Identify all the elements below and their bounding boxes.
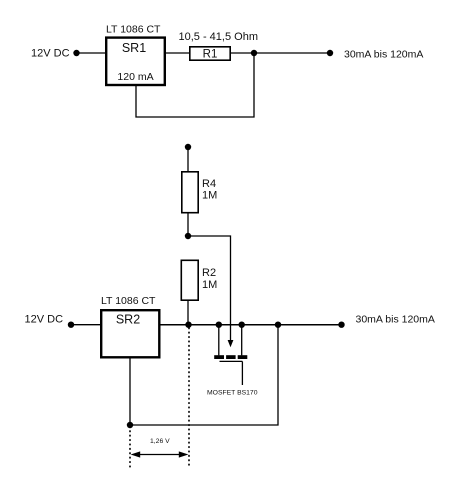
wire: SR2 output rail to terminal [160, 324, 342, 326]
dotted extension line left [129, 431, 131, 468]
drain lead [218, 325, 220, 356]
wire: input to SR2 [74, 324, 101, 326]
wire: input to SR1 (top) [79, 52, 106, 54]
node: R4/R2 divider junction [185, 233, 191, 239]
node: 12V DC input terminal (top circuit) [31, 48, 80, 60]
wire: divider node to MOSFET gate [188, 236, 231, 341]
gate lead down [241, 361, 243, 385]
node: ADJ feedback corner [127, 422, 133, 428]
node: feedback junction on rail [275, 322, 281, 328]
resistor R4 1M [182, 172, 217, 213]
source lead [241, 325, 243, 356]
svg-text:1M: 1M [202, 279, 217, 291]
wire: R2 to output rail [187, 300, 189, 325]
svg-text:R2: R2 [202, 267, 216, 279]
regulator SR2 (LT 1086 CT) [101, 295, 159, 357]
gate arrowhead [228, 340, 234, 347]
wire: SR1 ADJ feedback loop (top) [136, 53, 254, 117]
dotted extension line right [188, 328, 190, 468]
transistor MOSFET BS170 [207, 325, 258, 397]
wire: node to output terminal (top) [254, 52, 330, 54]
channel bar body [226, 355, 236, 359]
node: MOSFET drain junction [216, 322, 222, 328]
svg-text:SR1: SR1 [122, 41, 146, 55]
svg-text:30mA bis 120mA: 30mA bis 120mA [344, 48, 423, 60]
dimension line [136, 454, 183, 456]
arrowhead right [179, 451, 189, 457]
svg-text:1M: 1M [202, 190, 217, 202]
resistor R1 (10,5 - 41,5 Ohm) [179, 31, 259, 61]
node: supply terminal above R4 [185, 144, 191, 150]
wire: SR2 ADJ feedback loop [130, 325, 278, 425]
svg-text:12V DC: 12V DC [31, 48, 70, 60]
node: output terminal 30mA bis 120mA (bottom) [338, 314, 435, 328]
svg-text:MOSFET BS170: MOSFET BS170 [207, 390, 258, 397]
wire: R1 to output node (top) [230, 52, 254, 54]
annotation: 1,26 V dimension [130, 328, 189, 468]
arrowhead left [131, 451, 141, 457]
svg-text:SR2: SR2 [116, 313, 140, 327]
svg-text:30mA bis 120mA: 30mA bis 120mA [356, 314, 435, 326]
svg-text:LT 1086 CT: LT 1086 CT [106, 24, 161, 36]
node: 12V DC input terminal (bottom circuit) [25, 314, 75, 328]
svg-text:10,5 - 41,5 Ohm: 10,5 - 41,5 Ohm [179, 31, 259, 43]
regulator SR1 (LT 1086 CT, 120 mA) [106, 24, 165, 86]
wire: SR1 output to R1 [166, 52, 190, 54]
svg-text:120 mA: 120 mA [117, 71, 153, 83]
svg-text:R4: R4 [202, 178, 216, 190]
svg-text:R1: R1 [203, 49, 218, 61]
wire: R4 to divider node [187, 213, 189, 236]
svg-text:LT 1086 CT: LT 1086 CT [101, 295, 156, 307]
node: junction after R1 [251, 50, 257, 56]
channel bar source [238, 355, 248, 359]
gate electrode line [220, 360, 243, 362]
channel bar drain [214, 355, 224, 359]
svg-text:1,26 V: 1,26 V [150, 438, 170, 445]
node: R2 junction on rail [185, 322, 191, 328]
svg-text:12V DC: 12V DC [25, 314, 64, 326]
wire: terminal to R4 [187, 147, 189, 172]
node: MOSFET source junction [239, 322, 245, 328]
node: output terminal 30mA bis 120mA (top) [327, 48, 424, 60]
resistor R2 1M [181, 260, 217, 300]
